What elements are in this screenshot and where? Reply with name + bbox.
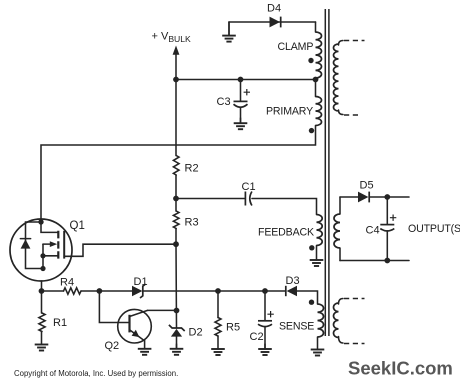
node junction bulk/R2 bbox=[173, 77, 179, 83]
wire primary bottom to Q1 drain bbox=[41, 126, 316, 221]
node primary phasing dot bbox=[309, 128, 314, 133]
transistor Q2 NPN bbox=[118, 309, 152, 343]
transformer primary winding bbox=[316, 97, 322, 126]
wire output bottom bbox=[340, 260, 409, 262]
ground (R1) bbox=[41, 332, 43, 345]
wire output top bbox=[340, 196, 358, 198]
svg-text:PRIMARY: PRIMARY bbox=[266, 106, 313, 118]
ground (R5) bbox=[217, 336, 219, 349]
transformer feedback winding bbox=[317, 215, 323, 246]
wire primary top lead bbox=[315, 80, 317, 97]
svg-text:D4: D4 bbox=[267, 3, 281, 15]
resistor R4 bbox=[64, 288, 82, 294]
node junction Q1 source / R1 / R4 bbox=[39, 288, 45, 294]
diode D4 bbox=[270, 17, 281, 28]
node junction gate drive bbox=[173, 241, 179, 247]
wire gate node down through rail to D2 bbox=[175, 244, 178, 328]
wire D1 cathode to sense rail bbox=[143, 290, 285, 292]
ground (C3) bbox=[240, 118, 242, 123]
resistor R2 bbox=[173, 156, 179, 176]
wire Q1 gate lead bbox=[64, 244, 176, 256]
transformer core bbox=[325, 9, 329, 336]
transformer output secondary winding bbox=[339, 197, 341, 214]
node junction C3 top bbox=[238, 77, 244, 83]
wire D4 anode drop bbox=[228, 22, 230, 35]
resistor R5 bbox=[215, 318, 221, 337]
wire C1 right to feedback bbox=[252, 199, 317, 215]
svg-text:C1: C1 bbox=[242, 181, 256, 193]
wire Q2 base lead bbox=[99, 291, 129, 323]
node junction C1 wire bbox=[173, 196, 179, 202]
wire D3 anode to sense winding bbox=[297, 291, 318, 304]
wire clamp top lead bbox=[315, 22, 317, 32]
wire R3 to gate node bbox=[175, 229, 177, 245]
wire R2 to R3 bbox=[175, 175, 177, 211]
svg-text:C2: C2 bbox=[250, 331, 264, 343]
node junction R5 top bbox=[215, 288, 221, 294]
svg-text:R4: R4 bbox=[60, 277, 74, 289]
svg-text:R1: R1 bbox=[53, 317, 67, 329]
wire Q1 source lead bbox=[41, 281, 43, 291]
svg-text:Copyright of Motorola, Inc. Us: Copyright of Motorola, Inc. Used by perm… bbox=[14, 369, 178, 378]
ground (D2) bbox=[176, 344, 178, 349]
transformer secondary winding (upper, dashed leads) bbox=[334, 41, 365, 116]
wire R4 to D1 bbox=[81, 290, 132, 292]
svg-text:D5: D5 bbox=[360, 180, 374, 192]
wire C1 left bbox=[176, 198, 245, 200]
ground (Q2 emitter) bbox=[144, 340, 146, 349]
capacitor C2 bbox=[258, 291, 274, 349]
svg-text:D2: D2 bbox=[189, 327, 203, 339]
svg-text:D1: D1 bbox=[134, 276, 148, 288]
resistor R1 bbox=[39, 313, 45, 332]
svg-text:C3: C3 bbox=[217, 96, 231, 108]
diode D5 bbox=[358, 192, 369, 203]
node feedback phasing dot bbox=[309, 245, 314, 250]
wire top clamp rail bbox=[229, 21, 316, 23]
wire bulk horizontal rail bbox=[176, 79, 316, 81]
diode D1 (zener) bbox=[132, 284, 146, 298]
wire R5 top bbox=[217, 291, 219, 318]
diode D2 (zener) bbox=[169, 325, 185, 349]
diode D3 bbox=[286, 286, 297, 297]
wire Q2 collector to gate node bbox=[148, 309, 177, 311]
svg-text:C4: C4 bbox=[366, 225, 380, 237]
node junction Q2 base tap bbox=[97, 288, 103, 294]
svg-text:R5: R5 bbox=[226, 322, 240, 334]
ground (D4 anode) bbox=[228, 22, 230, 36]
svg-text:SeekIC.com: SeekIC.com bbox=[348, 358, 453, 379]
ground (C2) bbox=[264, 344, 266, 349]
transformer sense winding bbox=[318, 304, 324, 337]
ground (feedback) bbox=[316, 246, 318, 261]
svg-text:+ VBULK: + VBULK bbox=[152, 31, 192, 45]
transformer secondary winding (lower, dashed leads) bbox=[334, 299, 365, 344]
wire R1 top bbox=[41, 291, 43, 313]
node junction C4 top bbox=[384, 194, 390, 200]
transformer clamp winding bbox=[316, 32, 322, 78]
svg-text:D3: D3 bbox=[286, 275, 300, 287]
resistor R3 bbox=[173, 211, 179, 229]
svg-text:Q2: Q2 bbox=[105, 340, 120, 352]
node junction C4 bottom bbox=[384, 258, 390, 264]
svg-text:SENSE: SENSE bbox=[279, 321, 314, 333]
svg-text:R2: R2 bbox=[185, 163, 199, 175]
node junction clamp/primary bbox=[313, 77, 319, 83]
svg-text:FEEDBACK: FEEDBACK bbox=[258, 227, 314, 239]
svg-text:CLAMP: CLAMP bbox=[278, 41, 314, 53]
svg-text:Q1: Q1 bbox=[70, 220, 85, 232]
svg-text:R3: R3 bbox=[185, 217, 199, 229]
node junction C2 top bbox=[262, 288, 268, 294]
capacitor C1 bbox=[245, 192, 252, 206]
wire D5 cathode to output bbox=[369, 196, 409, 198]
node clamp phasing dot bbox=[308, 58, 313, 63]
svg-text:OUTPUT(S: OUTPUT(S bbox=[408, 223, 460, 235]
node sense phasing dot bbox=[309, 300, 314, 305]
capacitor C3 bbox=[234, 80, 251, 124]
wire source to R4 bbox=[42, 290, 64, 292]
node +VBULK supply arrow bbox=[173, 46, 180, 156]
node junction Q2 collector / D2 bbox=[174, 308, 180, 314]
transistor Q1 power MOSFET bbox=[10, 219, 72, 281]
capacitor C4 bbox=[380, 197, 396, 261]
ground (sense) bbox=[317, 337, 319, 350]
